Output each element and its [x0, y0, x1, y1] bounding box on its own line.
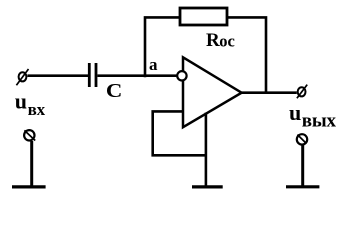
svg-text:a: a — [149, 55, 158, 74]
svg-text:R: R — [206, 30, 220, 51]
svg-text:u: u — [15, 89, 27, 114]
svg-text:вых: вых — [302, 110, 337, 131]
svg-text:C: C — [106, 79, 122, 101]
svg-text:ос: ос — [219, 31, 235, 50]
svg-text:u: u — [289, 100, 301, 125]
svg-text:вх: вх — [28, 100, 46, 119]
